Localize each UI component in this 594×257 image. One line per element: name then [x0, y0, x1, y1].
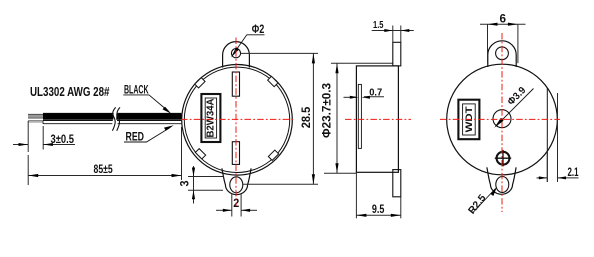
dimension 2 slot width — [231, 193, 233, 217]
front bottom mounting tab — [222, 168, 251, 194]
dimension 9.5 depth — [355, 172, 357, 218]
rear bottom tab slot hole — [496, 177, 509, 193]
dimension 85±5 wire length — [27, 155, 29, 185]
front view inner rim circle — [184, 67, 289, 172]
sound slot bottom — [232, 142, 239, 165]
leader red wire — [124, 127, 171, 142]
svg-text:9.5: 9.5 — [372, 203, 385, 216]
dimension 2.1 step — [557, 93, 559, 182]
dimension Φ23.7±0.3 diameter — [331, 62, 393, 64]
wire break symbol — [112, 107, 115, 130]
rear label plate WDT — [458, 100, 479, 140]
centerline horizontal rear view — [440, 118, 560, 120]
svg-text:Φ2: Φ2 — [252, 22, 265, 36]
front bottom tab slot hole — [230, 177, 243, 193]
sound slot top — [232, 72, 239, 96]
svg-text:3±0.5: 3±0.5 — [51, 133, 75, 146]
centerline vertical front view — [235, 38, 237, 207]
rim notch bottom-left — [195, 149, 205, 159]
rear top tab hole — [496, 47, 509, 60]
extension circle top to side view — [249, 62, 331, 64]
wire stripped ends — [28, 114, 43, 118]
svg-text:1.5: 1.5 — [373, 20, 384, 31]
svg-text:UL3302 AWG 28#: UL3302 AWG 28# — [30, 85, 110, 99]
side view front slot 0.7 — [358, 84, 361, 148]
dimension 3±0.5 stripped length — [27, 121, 29, 152]
front view outer circle — [182, 65, 293, 176]
centerline horizontal side view — [345, 118, 411, 120]
rim notch bottom-right — [268, 150, 278, 160]
svg-text:B2W34A: B2W34A — [205, 99, 216, 138]
svg-text:6: 6 — [500, 12, 507, 25]
svg-text:RED: RED — [126, 130, 145, 144]
rear bottom mounting tab — [487, 167, 516, 194]
svg-text:2.1: 2.1 — [568, 166, 579, 179]
wire black lead — [43, 113, 181, 119]
rear view circle — [447, 64, 558, 175]
dimension 3 tab protrusion — [188, 176, 224, 178]
centerline vertical rear view — [501, 33, 503, 212]
svg-text:85±5: 85±5 — [94, 162, 113, 176]
side view top tab — [393, 42, 401, 66]
rear sound hole Φ3.9 — [493, 110, 511, 128]
side view body — [356, 66, 398, 172]
extension line bottom hole to 28.5 — [243, 183, 318, 185]
rim notch top-right — [268, 76, 278, 86]
side view bottom tab — [393, 170, 401, 197]
centerline horizontal front view — [181, 118, 295, 120]
front top mounting tab — [223, 42, 250, 68]
dimension 28.5 hole spacing — [312, 53, 314, 184]
svg-text:3: 3 — [179, 180, 192, 187]
svg-text:28.5: 28.5 — [300, 106, 313, 128]
front top tab hole Φ2 — [231, 49, 240, 58]
leader black wire — [123, 95, 168, 112]
rear top mounting tab — [488, 41, 516, 67]
model label plate B2W34A — [201, 94, 220, 142]
rim notch top-left — [195, 78, 205, 88]
extension line top hole to 28.5 — [241, 52, 318, 54]
rear view side cut chord — [546, 88, 548, 182]
svg-text:Φ23.7±0.3: Φ23.7±0.3 — [321, 82, 334, 138]
wire red lead — [43, 121, 181, 124]
rear screw boss cross — [497, 152, 510, 165]
svg-text:R2.5: R2.5 — [467, 193, 489, 217]
